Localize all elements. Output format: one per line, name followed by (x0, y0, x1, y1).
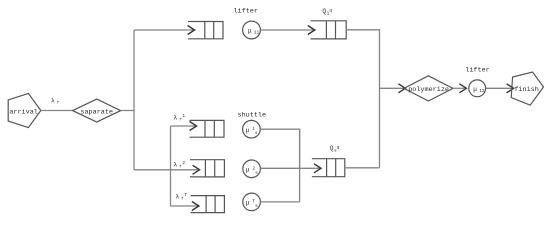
label lambda_r2 (173, 160, 185, 170)
diamond polymerize (404, 76, 453, 101)
queue Q1q (311, 21, 347, 39)
svg-text:2: 2 (182, 160, 185, 166)
label Qsq (330, 145, 340, 153)
wire branch vertical (170, 126, 172, 206)
wire row2 from main vertical (134, 169, 198, 171)
queue Qsq (312, 159, 345, 177)
wire Qs-right vertical (345, 167, 380, 169)
wire merge vertical (299, 129, 301, 202)
svg-text:q: q (337, 145, 340, 150)
svg-text:s: s (255, 204, 258, 209)
arrowhead into buffer B1 (188, 26, 195, 35)
svg-text:μ: μ (473, 86, 477, 93)
arrowhead into mu12 (459, 84, 466, 93)
label lambda_r (51, 98, 60, 106)
wire Q1-right corner (346, 30, 379, 168)
wire muTs-merge (260, 201, 299, 203)
svg-text:saparate: saparate (80, 108, 113, 116)
label lambda_r1 (173, 113, 185, 123)
svg-text:lifter: lifter (465, 67, 489, 75)
wire row3 corner (171, 205, 199, 207)
server muTs (243, 193, 261, 211)
wire main vertical (133, 30, 135, 111)
pentagon finish (511, 72, 543, 105)
wire top branch (134, 29, 194, 31)
label Q1q (322, 8, 332, 16)
svg-text:λ: λ (173, 161, 177, 168)
svg-text:λ: λ (175, 193, 179, 200)
diamond saparate (73, 99, 121, 122)
wire junction-polymerize (380, 87, 405, 89)
svg-text:q: q (329, 8, 332, 13)
queue buffer B1 (188, 22, 223, 39)
svg-text:λ: λ (51, 98, 55, 105)
queue row3 (191, 196, 225, 213)
wire row1 (171, 125, 196, 127)
wire mu2s-Qs (260, 167, 320, 169)
svg-text:μ: μ (246, 200, 250, 207)
wire saparate-junction (121, 110, 134, 112)
arrowhead row3 (192, 202, 199, 211)
svg-text:s: s (255, 131, 258, 136)
wire mu12-finish (486, 87, 513, 89)
server mu1s (243, 120, 261, 138)
arrowhead into finish (507, 84, 514, 93)
svg-text:11: 11 (254, 29, 260, 35)
svg-text:s: s (255, 171, 258, 176)
pentagon arrival (8, 93, 41, 127)
server mu11 (243, 21, 261, 39)
svg-text:r: r (57, 100, 60, 106)
queue row2 (190, 160, 224, 177)
arrowhead row2 (193, 165, 200, 174)
server mu2s (243, 160, 261, 178)
svg-text:finish: finish (514, 86, 538, 94)
wire polymerize-mu12 (453, 87, 465, 89)
arrowhead into Q1 (308, 26, 315, 35)
server mu12 (469, 80, 486, 97)
svg-text:polymerize: polymerize (408, 86, 449, 94)
svg-text:12: 12 (479, 88, 485, 94)
wire arrival-saparate (41, 110, 73, 112)
arrowhead into Qs (314, 164, 321, 173)
svg-text:μ: μ (246, 167, 250, 174)
svg-text:1: 1 (182, 113, 185, 119)
svg-text:lifter: lifter (233, 7, 257, 15)
svg-text:T: T (184, 192, 187, 198)
queue row1 (190, 120, 225, 137)
wire mu11-Q1 (260, 29, 314, 31)
arrowhead row1 (190, 122, 197, 131)
svg-text:shuttle: shuttle (238, 111, 267, 119)
svg-text:μ: μ (246, 127, 250, 134)
label lambda_rT (175, 192, 187, 202)
arrowhead into polymerize (398, 84, 405, 93)
svg-text:λ: λ (173, 114, 177, 121)
svg-text:μ: μ (248, 27, 252, 34)
wire mu1s-merge (260, 129, 299, 168)
svg-text:arrival: arrival (9, 108, 38, 116)
